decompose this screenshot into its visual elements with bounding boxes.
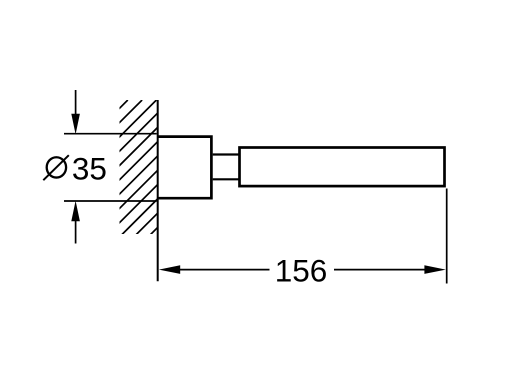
left arrowhead 156 [159, 265, 180, 274]
diameter symbol circle [47, 157, 66, 177]
wall line [157, 100, 159, 281]
svg-text:35: 35 [72, 151, 107, 187]
top dim arrowhead [71, 114, 80, 135]
diameter symbol slash [43, 155, 69, 180]
wall hatching [0, 100, 285, 240]
bottom extension line [64, 200, 157, 202]
svg-text:156: 156 [275, 252, 328, 288]
bottom dim arrowhead [71, 201, 80, 222]
dim line 156 left segment [180, 269, 270, 271]
bar body [240, 148, 445, 187]
top dim arrow line [75, 90, 77, 116]
bottom dim arrow line [75, 221, 77, 244]
right arrowhead 156 [424, 265, 445, 274]
dim line 156 right segment [334, 269, 426, 271]
neck top line [213, 153, 240, 155]
neck bottom line [213, 178, 240, 180]
right extension line [446, 189, 448, 284]
top extension line [64, 133, 157, 135]
flange (wall rosette) [157, 137, 211, 199]
